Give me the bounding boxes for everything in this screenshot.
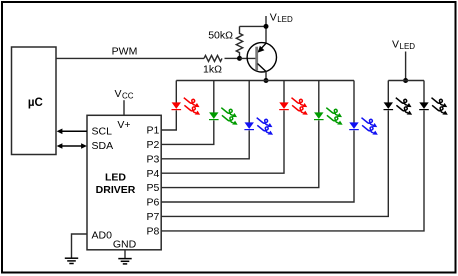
svg-text:LED: LED [277, 15, 293, 24]
wire: LED D5 green cathode to driver pin P5 [161, 120, 319, 187]
wire: LED D7 cathode to driver pin P7 [161, 110, 388, 216]
power VCC [115, 88, 134, 101]
svg-text:GND: GND [113, 239, 137, 251]
wire: AD0 to ground [72, 234, 88, 258]
wire: GND stub [124, 250, 126, 258]
wire: VLED branch to R1 top [240, 25, 267, 27]
svg-text:P7: P7 [147, 211, 160, 223]
svg-text:P1: P1 [147, 125, 160, 137]
wire SCL: driver to uC (arrow into uC) [57, 129, 87, 135]
svg-text:DRIVER: DRIVER [96, 184, 136, 196]
wire: LED D4 red cathode to driver pin P4 [161, 110, 284, 173]
svg-text:P4: P4 [147, 168, 160, 180]
svg-text:LED: LED [400, 42, 416, 51]
wire: anode rail to LED D8 [423, 81, 425, 104]
wire: LED D2 green cathode to driver pin P2 [161, 120, 214, 144]
ground (AD0) [65, 258, 78, 263]
wire: anode rail to LED D4 red [283, 81, 285, 104]
wire: LED D8 cathode to driver pin P8 [161, 110, 424, 230]
wire: PWM from uC to R2 [56, 57, 204, 59]
LED D6 blue [349, 118, 378, 135]
wire: LED D3 blue cathode to driver pin P3 [161, 130, 249, 158]
LED D1 red [172, 98, 201, 115]
wire: anode rail to LED D5 green [318, 81, 320, 114]
wire: VCC to V+ pin [123, 100, 125, 115]
svg-text:50kΩ: 50kΩ [208, 30, 233, 42]
svg-text:LED: LED [105, 172, 126, 184]
junction dot collector/rail [264, 78, 269, 83]
svg-text:V: V [270, 12, 277, 24]
svg-text:P2: P2 [147, 139, 160, 151]
wire: anode rail (right bank) [388, 80, 424, 82]
resistor R1 50k (vertical) [236, 26, 242, 58]
svg-text:P3: P3 [147, 153, 160, 165]
svg-text:1kΩ: 1kΩ [203, 63, 222, 75]
ground (GND) [118, 259, 131, 264]
wire: anode rail to LED D3 blue [248, 81, 250, 124]
wire: VLED right to rail [405, 52, 407, 81]
LED D7 [384, 98, 413, 115]
wire: VLED to Q1 emitter [265, 16, 267, 44]
svg-text:PWM: PWM [112, 46, 138, 58]
svg-text:AD0: AD0 [92, 229, 113, 241]
wire: R2 to base node [225, 57, 240, 59]
svg-text:P6: P6 [147, 197, 160, 209]
svg-text:SCL: SCL [92, 126, 113, 138]
LED D3 blue [244, 118, 273, 135]
microcontroller uC [12, 47, 57, 155]
wire: anode rail (left bank) [176, 80, 354, 82]
svg-text:V: V [115, 88, 122, 100]
resistor R2 1k (horizontal) [204, 55, 222, 61]
node: base junction R1/R2/Q1 [237, 56, 242, 61]
LED D4 red [279, 98, 308, 115]
LED driver U2 [87, 115, 161, 250]
wire: LED D6 blue cathode to driver pin P6 [161, 130, 354, 202]
junction dot VLED/right rail [403, 78, 408, 83]
label LED DRIVER [96, 172, 136, 196]
wire: base node to Q1 base [240, 57, 257, 59]
svg-text:CC: CC [122, 92, 134, 101]
svg-text:µC: µC [28, 97, 43, 109]
svg-text:V+: V+ [117, 119, 130, 131]
wire: LED D1 red cathode to driver pin P1 [161, 110, 176, 130]
wire: anode rail to LED D6 blue [353, 81, 355, 124]
svg-text:SDA: SDA [92, 140, 114, 152]
LED D8 [419, 98, 448, 115]
wire: anode rail to LED D1 red [175, 81, 177, 104]
junction dot VLED/R1 [264, 24, 269, 29]
wire: Q1 collector to anode rail [265, 72, 267, 81]
wire: anode rail to LED D7 [387, 81, 389, 104]
transistor Q1 (PNP) [247, 43, 276, 72]
wire SDA: bidirectional uC/driver [57, 143, 87, 149]
svg-text:P5: P5 [147, 182, 160, 194]
power VLED (right) [392, 39, 415, 51]
LED D2 green [209, 108, 238, 125]
svg-text:P8: P8 [147, 226, 160, 238]
svg-text:V: V [392, 39, 399, 51]
wire: anode rail to LED D2 green [213, 81, 215, 114]
power VLED (left) [270, 12, 293, 24]
LED D5 green [314, 108, 343, 125]
